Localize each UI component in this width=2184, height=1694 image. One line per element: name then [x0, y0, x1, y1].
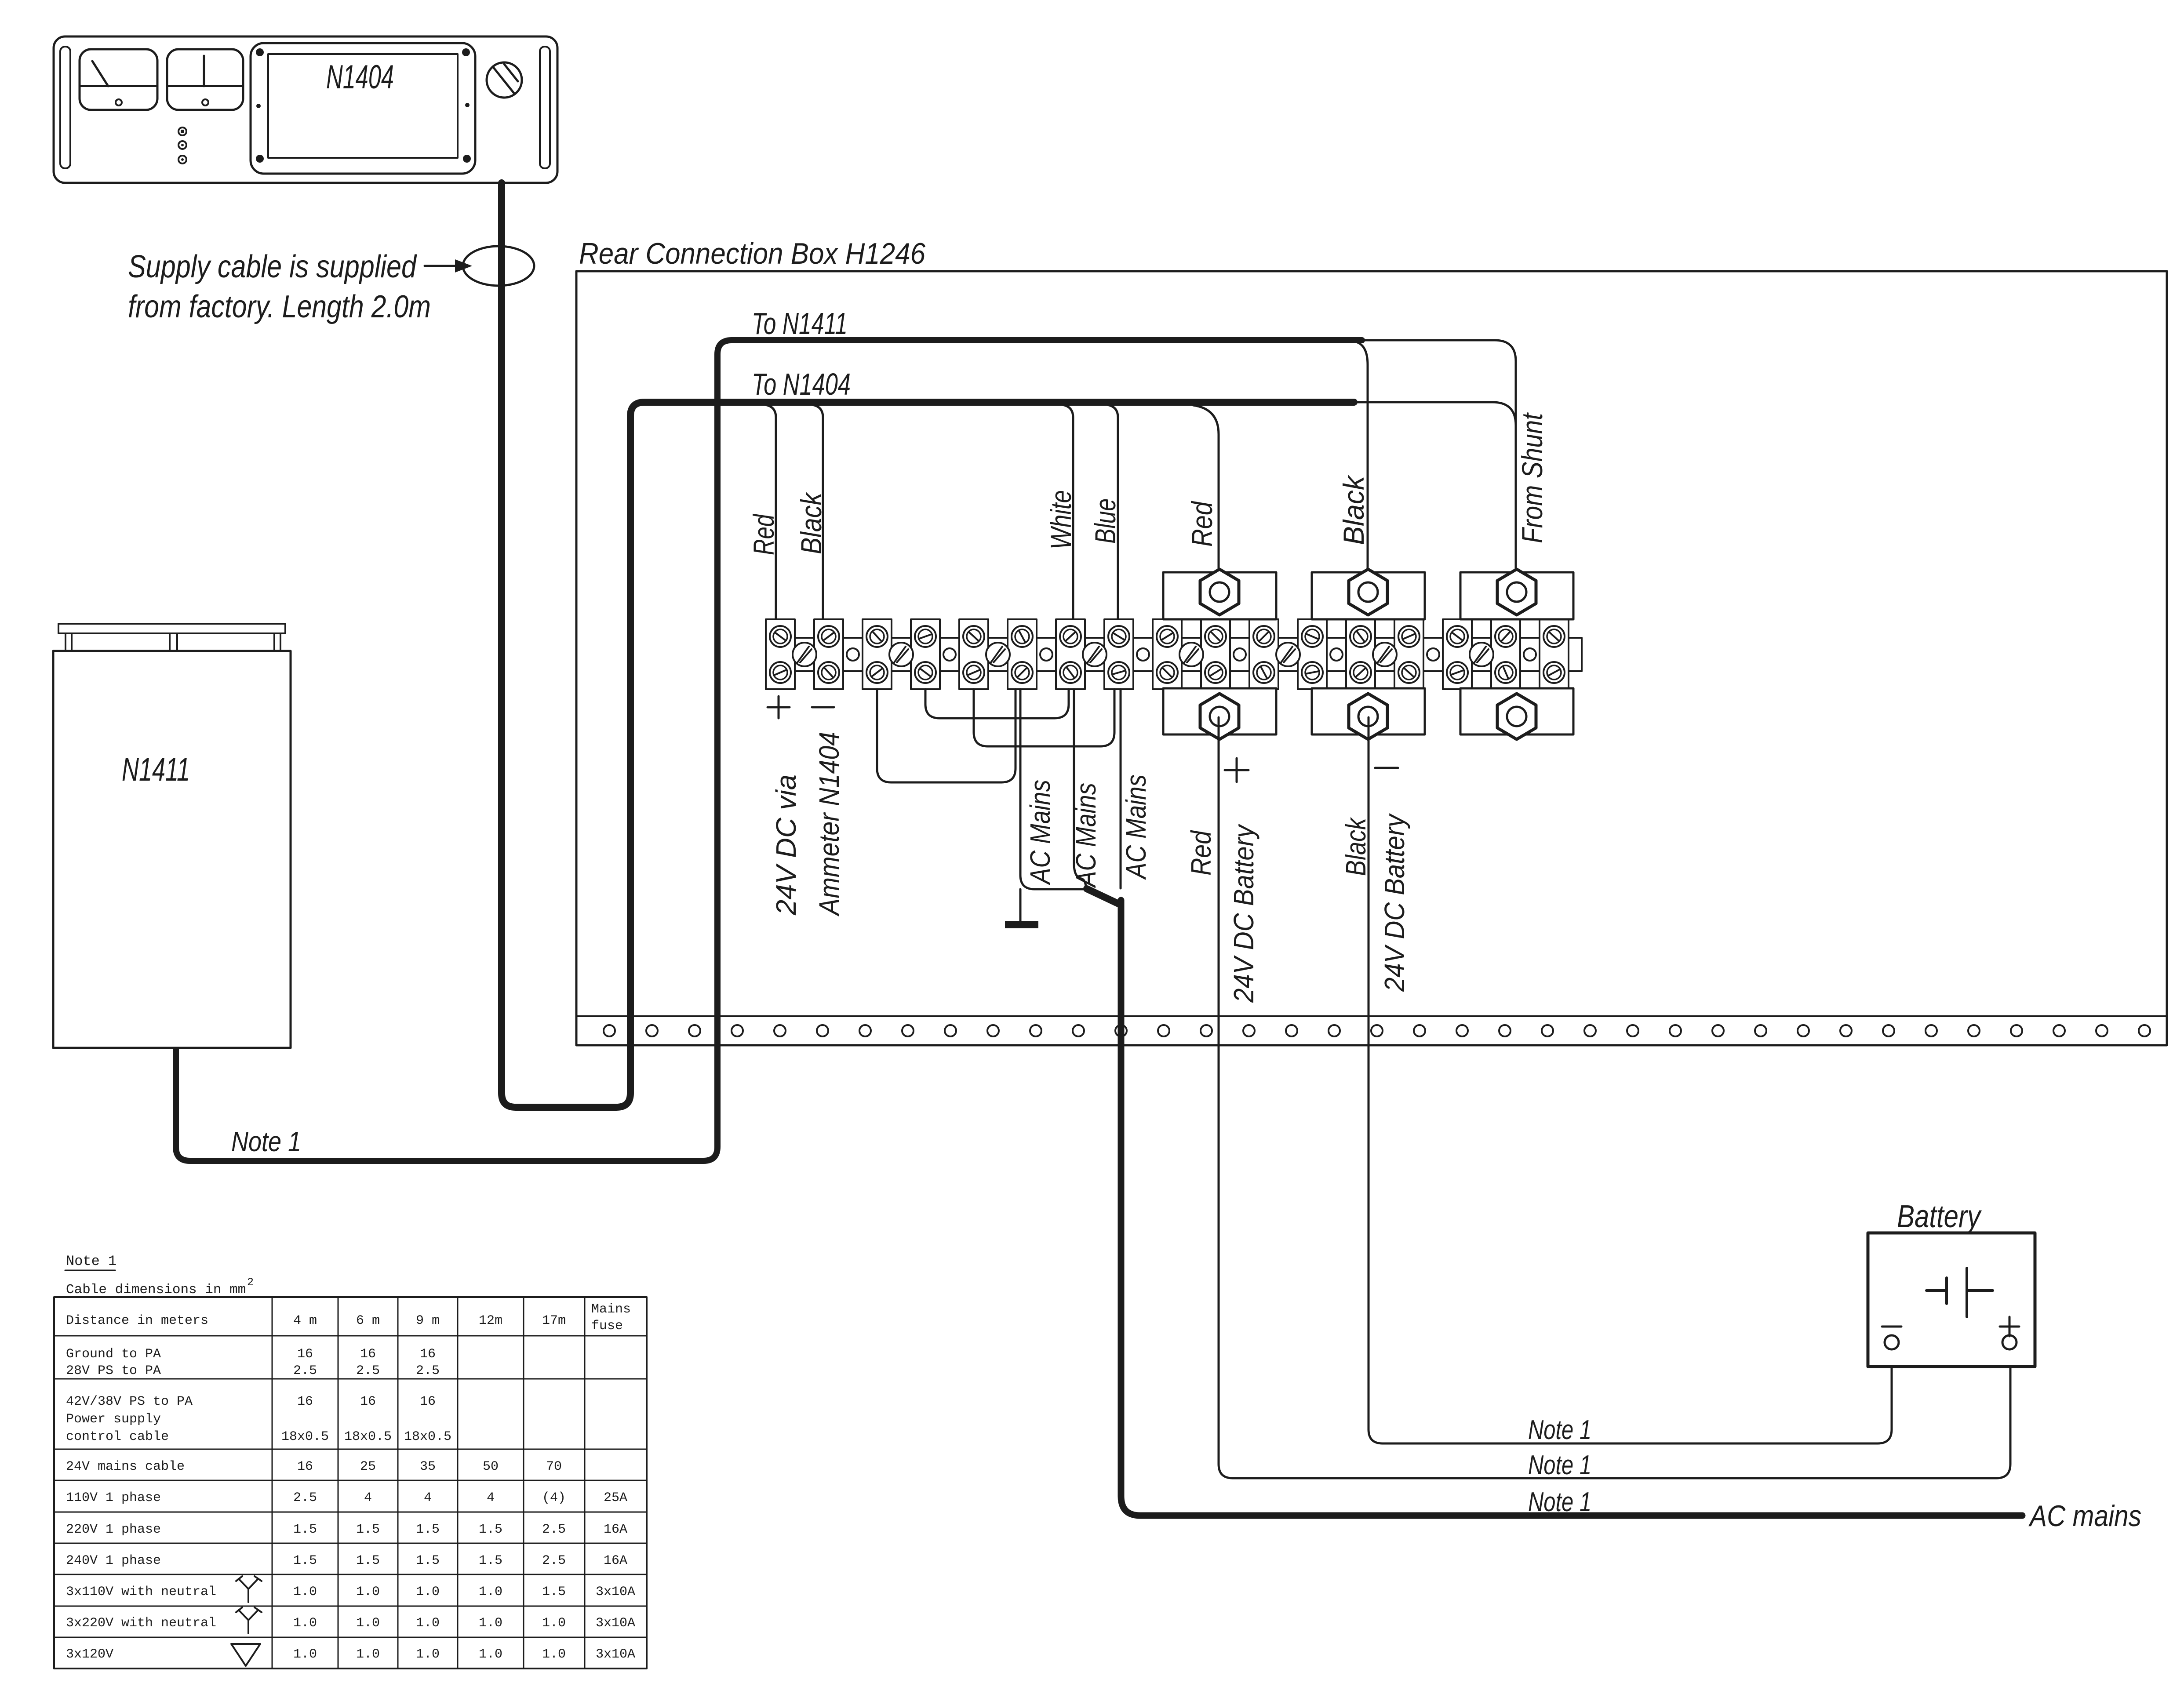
flange mounting holes — [604, 1025, 2150, 1036]
cable to N1411 (thick) — [176, 340, 1362, 1161]
terminal block 1 — [766, 619, 795, 689]
title Rear Connection Box H1246 — [579, 237, 925, 270]
terminal block 9 — [1153, 619, 1182, 689]
svg-text:1.0: 1.0 — [416, 1647, 440, 1662]
svg-text:Rear Connection Box H1246: Rear Connection Box H1246 — [579, 237, 925, 270]
strip mounting screw — [889, 643, 913, 666]
terminal block 17 — [1540, 619, 1569, 689]
label Note 1 (battery plus wire) — [1528, 1450, 1591, 1480]
table text — [66, 1302, 635, 1662]
plus mark (strip) — [768, 696, 790, 718]
terminal block 3 — [863, 619, 892, 689]
battery terminal C (From Shunt) top plate — [1460, 569, 1573, 619]
svg-text:24V DC Battery: 24V DC Battery — [1228, 823, 1259, 1003]
svg-text:16: 16 — [420, 1394, 436, 1409]
svg-text:1.5: 1.5 — [542, 1585, 566, 1599]
table caption — [66, 1276, 254, 1298]
svg-text:1.0: 1.0 — [479, 1585, 502, 1599]
svg-text:Black: Black — [1340, 817, 1372, 876]
svg-text:control cable: control cable — [66, 1429, 169, 1444]
wire N1411 shunt lead — [1362, 340, 1516, 572]
cable grommet oval — [463, 246, 534, 286]
strip hole — [847, 648, 859, 661]
note: supply cable text — [128, 249, 431, 324]
svg-text:From Shunt: From Shunt — [1516, 412, 1548, 543]
strip hole — [1234, 648, 1246, 661]
label To N1411 — [752, 306, 848, 341]
cable dimension table grid — [54, 1297, 647, 1669]
svg-text:220V 1 phase: 220V 1 phase — [66, 1522, 161, 1537]
terminal block 13 — [1346, 619, 1375, 689]
terminal block 12 — [1298, 619, 1327, 689]
svg-text:Red: Red — [1185, 830, 1217, 876]
jumper wire block5 to block8 — [974, 689, 1114, 746]
label From Shunt — [1516, 412, 1548, 543]
svg-text:2.5: 2.5 — [416, 1363, 440, 1378]
note 1 underline — [65, 1270, 115, 1271]
battery plus mark — [2000, 1317, 2019, 1336]
svg-text:Ground to PA: Ground to PA — [66, 1347, 161, 1362]
wye symbol 3x220V — [236, 1607, 262, 1633]
panel left slot — [60, 47, 70, 168]
wire red N1404 to strip — [765, 405, 776, 619]
strip mounting screw — [1470, 643, 1493, 666]
svg-text:18x0.5: 18x0.5 — [281, 1429, 329, 1444]
svg-text:16: 16 — [297, 1394, 313, 1409]
svg-text:3x110V with neutral: 3x110V with neutral — [66, 1585, 216, 1599]
labels AC Mains x3 — [1024, 774, 1152, 888]
svg-text:2.5: 2.5 — [356, 1363, 380, 1378]
strip hole — [1524, 648, 1536, 661]
strip hole — [1427, 648, 1439, 661]
AC mains wire 2 — [1074, 689, 1086, 886]
wye symbol 3x110V — [236, 1576, 262, 1602]
AC mains wire 1 (to ground) — [1020, 689, 1085, 889]
wire black battery - (terminal B to battery) — [1369, 717, 1892, 1443]
panel right slot — [540, 47, 550, 168]
svg-text:Note 1: Note 1 — [231, 1126, 301, 1157]
svg-text:Red: Red — [747, 513, 780, 555]
terminal block 15 — [1443, 619, 1472, 689]
terminal block 2 — [814, 619, 843, 689]
svg-text:25: 25 — [360, 1459, 376, 1474]
svg-text:2.5: 2.5 — [542, 1553, 566, 1568]
label Note 1 (AC mains wire) — [1528, 1487, 1591, 1517]
label Note 1 (battery minus wire) — [1528, 1415, 1591, 1445]
svg-text:2.5: 2.5 — [293, 1490, 317, 1505]
arrow to grommet — [425, 259, 472, 273]
svg-text:42V/38V PS to PA: 42V/38V PS to PA — [66, 1394, 193, 1409]
svg-text:70: 70 — [546, 1459, 562, 1474]
power supply N1411 — [53, 651, 291, 1048]
svg-text:1.0: 1.0 — [356, 1647, 380, 1662]
svg-text:2.5: 2.5 — [293, 1363, 317, 1378]
svg-text:1.5: 1.5 — [356, 1553, 380, 1568]
terminal block 8 — [1104, 619, 1133, 689]
svg-text:1.0: 1.0 — [293, 1616, 317, 1631]
minus mark (strip) — [812, 706, 834, 709]
svg-text:White: White — [1045, 490, 1077, 549]
label Black (battery wire) — [1340, 817, 1372, 876]
svg-text:AC Mains: AC Mains — [1120, 774, 1152, 880]
svg-text:Ammeter N1404: Ammeter N1404 — [813, 732, 845, 917]
label Ammeter N1404 — [813, 732, 845, 917]
strip mounting screw — [1083, 643, 1107, 666]
strip mounting screw — [793, 643, 816, 666]
strip hole — [1137, 648, 1149, 661]
ground symbol — [1005, 889, 1038, 928]
AC mains merged cable (thick) — [1087, 889, 2022, 1516]
svg-text:1.5: 1.5 — [293, 1522, 317, 1537]
label White — [1045, 490, 1077, 549]
battery box — [1868, 1233, 2035, 1367]
label AC mains (bottom) — [2028, 1499, 2141, 1533]
svg-text:1.0: 1.0 — [293, 1647, 317, 1662]
svg-text:fuse: fuse — [591, 1319, 623, 1334]
note 1 table header text — [66, 1253, 116, 1269]
jumper wire block4 to block7 — [925, 689, 1069, 718]
label To N1404 — [752, 367, 851, 401]
svg-text:1.5: 1.5 — [416, 1522, 440, 1537]
svg-text:1.0: 1.0 — [356, 1616, 380, 1631]
svg-text:16: 16 — [360, 1394, 376, 1409]
svg-text:16A: 16A — [604, 1522, 627, 1537]
svg-text:12m: 12m — [479, 1313, 502, 1328]
svg-text:Distance in meters: Distance in meters — [66, 1313, 208, 1328]
terminal block 14 — [1394, 619, 1423, 689]
jumper wire block3 to block6 — [877, 689, 1016, 782]
svg-text:1.0: 1.0 — [542, 1647, 566, 1662]
strip mounting screw — [986, 643, 1010, 666]
svg-text:1.0: 1.0 — [293, 1585, 317, 1599]
wire N1411 black to terminal B — [1356, 342, 1368, 572]
svg-text:2.5: 2.5 — [542, 1522, 566, 1537]
svg-text:16: 16 — [297, 1459, 313, 1474]
svg-text:25A: 25A — [604, 1490, 627, 1505]
svg-text:N1404: N1404 — [326, 58, 394, 96]
terminal block 11 — [1249, 619, 1278, 689]
delta symbol 3x120V — [231, 1644, 260, 1666]
battery terminal circles — [1885, 1335, 2017, 1349]
svg-text:4: 4 — [487, 1490, 495, 1505]
terminal block 16 — [1491, 619, 1520, 689]
wire black N1404 to strip — [812, 405, 823, 619]
svg-text:N1411: N1411 — [122, 751, 190, 788]
meter M1 — [80, 49, 157, 110]
svg-text:Blue: Blue — [1089, 498, 1121, 544]
svg-text:16: 16 — [360, 1347, 376, 1362]
battery terminal B (Black -) bottom plate — [1312, 688, 1425, 739]
svg-text:1.5: 1.5 — [479, 1553, 502, 1568]
svg-text:Battery: Battery — [1897, 1199, 1982, 1234]
terminal block 6 — [1008, 619, 1037, 689]
svg-text:24V DC Battery: 24V DC Battery — [1379, 813, 1410, 992]
strip hole — [943, 648, 956, 661]
display bezel — [251, 43, 475, 174]
svg-text:2: 2 — [247, 1276, 254, 1289]
svg-text:Note 1: Note 1 — [1528, 1415, 1591, 1445]
label Black (terminal B) — [1337, 475, 1370, 545]
svg-text:28V PS to PA: 28V PS to PA — [66, 1363, 161, 1378]
terminal block 4 — [911, 619, 940, 689]
svg-text:Note 1: Note 1 — [1528, 1487, 1591, 1517]
svg-text:240V 1 phase: 240V 1 phase — [66, 1553, 161, 1568]
battery terminal A (Red +) top plate — [1163, 569, 1276, 619]
svg-text:6 m: 6 m — [356, 1313, 380, 1328]
label Red (strip) — [747, 513, 780, 555]
svg-text:50: 50 — [483, 1459, 499, 1474]
svg-text:18x0.5: 18x0.5 — [344, 1429, 392, 1444]
svg-text:To N1404: To N1404 — [752, 367, 851, 401]
strip hole — [1330, 648, 1343, 661]
svg-text:Power supply: Power supply — [66, 1412, 161, 1427]
svg-text:24V DC via: 24V DC via — [770, 774, 802, 916]
label Battery — [1897, 1199, 1982, 1234]
terminal block 7 — [1056, 619, 1085, 689]
svg-text:110V 1 phase: 110V 1 phase — [66, 1490, 161, 1505]
svg-text:4: 4 — [424, 1490, 432, 1505]
svg-text:AC Mains: AC Mains — [1024, 780, 1056, 885]
label N1404 — [326, 58, 394, 96]
svg-text:1.5: 1.5 — [416, 1553, 440, 1568]
svg-text:Black: Black — [795, 491, 827, 554]
svg-text:1.0: 1.0 — [542, 1616, 566, 1631]
svg-text:1.5: 1.5 — [293, 1553, 317, 1568]
AC mains wire 3 — [1120, 689, 1122, 888]
svg-text:4: 4 — [364, 1490, 372, 1505]
battery terminal A (Red +) bottom plate — [1163, 688, 1276, 739]
battery terminal B (Black -) top plate — [1312, 569, 1425, 619]
wire red battery + (terminal A to battery) — [1219, 717, 2010, 1478]
label Note 1 (N1411 cable) — [231, 1126, 301, 1157]
svg-text:Note 1: Note 1 — [66, 1253, 116, 1269]
label 24V DC Battery (A) — [1228, 823, 1259, 1003]
battery terminal C (From Shunt) bottom plate — [1460, 688, 1573, 739]
svg-text:1.0: 1.0 — [416, 1585, 440, 1599]
svg-text:1.5: 1.5 — [479, 1522, 502, 1537]
bezel corner screws — [256, 48, 471, 163]
svg-text:3x120V: 3x120V — [66, 1647, 113, 1662]
meter M2 — [167, 49, 243, 110]
svg-text:from factory. Length 2.0m: from factory. Length 2.0m — [128, 289, 431, 324]
strip mounting screw — [1179, 643, 1203, 666]
svg-text:1.0: 1.0 — [479, 1647, 502, 1662]
svg-text:1.0: 1.0 — [416, 1616, 440, 1631]
battery cell symbol — [1926, 1268, 1993, 1317]
wire red N1404 to battery terminal A — [1193, 405, 1219, 572]
svg-text:9 m: 9 m — [416, 1313, 440, 1328]
svg-text:16A: 16A — [604, 1553, 627, 1568]
svg-text:3x10A: 3x10A — [596, 1616, 635, 1631]
svg-text:1.5: 1.5 — [356, 1522, 380, 1537]
label Red (battery wire) — [1185, 830, 1217, 876]
svg-text:Black: Black — [1337, 475, 1370, 545]
svg-text:24V mains cable: 24V mains cable — [66, 1459, 185, 1474]
terminal strip web — [766, 638, 1582, 671]
N1411 top rail — [58, 624, 285, 651]
svg-text:3x220V with neutral: 3x220V with neutral — [66, 1616, 216, 1631]
svg-text:16: 16 — [297, 1347, 313, 1362]
indicator LEDs — [178, 127, 186, 164]
svg-text:3x10A: 3x10A — [596, 1585, 635, 1599]
svg-text:17m: 17m — [542, 1313, 566, 1328]
terminal block 10 — [1201, 619, 1230, 689]
label Blue — [1089, 498, 1121, 544]
supply cable N1404 (wire) — [502, 183, 1354, 1107]
wire white N1404 to strip — [1063, 405, 1073, 619]
svg-text:Red: Red — [1186, 501, 1218, 547]
strip hole — [1040, 648, 1052, 661]
svg-text:(4): (4) — [542, 1490, 566, 1505]
svg-text:Supply cable is supplied: Supply cable is supplied — [128, 249, 417, 284]
svg-text:Mains: Mains — [591, 1302, 631, 1317]
svg-text:AC mains: AC mains — [2028, 1499, 2141, 1533]
panel fastening screw — [487, 62, 522, 98]
label Black (strip) — [795, 491, 827, 554]
svg-text:3x10A: 3x10A — [596, 1647, 635, 1662]
svg-text:35: 35 — [420, 1459, 436, 1474]
terminal block 5 — [959, 619, 988, 689]
svg-text:1.0: 1.0 — [479, 1616, 502, 1631]
label 24V DC via — [770, 774, 802, 916]
battery minus mark — [1882, 1326, 1901, 1328]
strip mounting screw — [1373, 643, 1397, 666]
rear connection box H1246 — [576, 271, 2167, 1045]
svg-text:Cable dimensions in mm: Cable dimensions in mm — [66, 1282, 246, 1298]
plus mark terminal A — [1225, 758, 1249, 782]
wire blue N1404 to strip — [1107, 405, 1118, 619]
label 24V DC Battery (B) — [1379, 813, 1410, 992]
svg-text:18x0.5: 18x0.5 — [404, 1429, 451, 1444]
cable to N1404 thin tail — [1354, 402, 1516, 425]
panel N1404 front view — [54, 36, 557, 183]
svg-text:AC Mains: AC Mains — [1070, 783, 1102, 888]
minus mark terminal B — [1375, 767, 1398, 769]
label Red (terminal A) — [1186, 501, 1218, 547]
label N1411 — [122, 751, 190, 788]
svg-text:To N1411: To N1411 — [752, 306, 848, 341]
svg-text:4 m: 4 m — [293, 1313, 317, 1328]
svg-text:1.0: 1.0 — [356, 1585, 380, 1599]
strip mounting screw — [1276, 643, 1300, 666]
box flange fold line — [576, 1015, 2167, 1017]
svg-text:16: 16 — [420, 1347, 436, 1362]
svg-text:Note 1: Note 1 — [1528, 1450, 1591, 1480]
